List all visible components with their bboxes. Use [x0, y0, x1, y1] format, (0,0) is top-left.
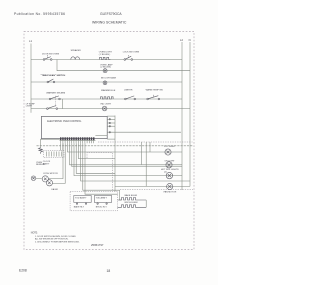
svg-text:DOOR SW OVEN: DOOR SW OVEN: [42, 53, 60, 55]
lamp oven lamp: [103, 69, 107, 73]
svg-text:WIRING SCHEMATIC: WIRING SCHEMATIC: [92, 21, 127, 25]
wire row3b: [31, 108, 190, 110]
wire branch to oven lamp: [57, 60, 190, 71]
svg-text:LOC LIGHT: LOC LIGHT: [164, 146, 176, 148]
svg-text:TOD ASM'Y: TOD ASM'Y: [96, 196, 108, 199]
wire row1: [31, 59, 182, 61]
svg-text:ASM’Y: ASM’Y: [43, 162, 50, 165]
svg-text:Publication No. 5995435786: Publication No. 5995435786: [14, 12, 65, 16]
svg-text:(2): (2): [164, 171, 167, 173]
pin stub 6: [107, 138, 115, 140]
connector P1 band: [60, 137, 95, 140]
page background: [0, 0, 218, 285]
dashed page border: [24, 32, 194, 250]
relay broil relay box: [94, 196, 111, 203]
svg-text:WARM TEMP SW: WARM TEMP SW: [146, 88, 164, 91]
svg-text:ON LIGHT: ON LIGHT: [165, 161, 176, 163]
svg-text:(2 BULBS): (2 BULBS): [101, 67, 112, 69]
connector P3 hatch pins: [47, 152, 62, 157]
svg-text:TOD ASM'Y: TOD ASM'Y: [75, 196, 87, 199]
pin stub 2: [109, 119, 110, 120]
connector dashed box left: [43, 151, 64, 158]
wire staircase from connector: [49, 143, 64, 178]
wire N bus: [189, 42, 191, 186]
switch surface switch row3a: [49, 96, 60, 100]
switch second pole row3b: [47, 106, 58, 110]
lamp surface light row2: [103, 81, 107, 85]
svg-text:FA MO: FA MO: [52, 188, 59, 191]
relay bake relay box: [74, 196, 91, 203]
svg-text:2. DISCONNECT POWER BEFORE SER: 2. DISCONNECT POWER BEFORE SERVICING.: [35, 241, 80, 243]
dashed console lines: [87, 153, 112, 192]
wire element join: [145, 200, 147, 207]
wire vertical collector right of EOC: [114, 116, 116, 192]
wire row C4: [115, 185, 190, 187]
wire dashed run below EOC: [98, 141, 193, 143]
element oven light row1: [100, 57, 111, 59]
svg-text:CONV MOTOR: CONV MOTOR: [43, 173, 58, 175]
svg-text:BAKE RLY: BAKE RLY: [74, 206, 85, 209]
link mechanical dashed: [55, 96, 57, 107]
wire band right to box edge: [95, 135, 107, 137]
switch limit row3a: [125, 96, 136, 100]
wire drop to C2 row: [141, 142, 143, 164]
wire row2: [31, 81, 182, 83]
svg-text:BROIL RLY: BROIL RLY: [96, 207, 108, 209]
svg-text:25951797: 25951797: [91, 243, 104, 247]
svg-text:N: N: [189, 38, 191, 42]
wire L2 bus: [181, 42, 183, 190]
svg-text:L1: L1: [29, 39, 32, 43]
svg-text:LIMITER: LIMITER: [124, 90, 133, 92]
element warmer element row3a: [101, 97, 114, 99]
motor cooling fan motor: [167, 183, 173, 189]
connector pins short drops: [61, 140, 94, 143]
svg-text:WARMER ELE: WARMER ELE: [101, 89, 116, 92]
svg-text:ALL SW SHOWN IN OFF POSITION.: ALL SW SHOWN IN OFF POSITION.: [35, 238, 69, 241]
switch thermostat row3a: [147, 94, 160, 99]
coil speaker row1: [71, 57, 80, 60]
wire drop short: [149, 142, 151, 152]
wire dashed lower run: [120, 189, 193, 191]
svg-text:( 2 BULBS ): ( 2 BULBS ): [99, 54, 111, 56]
wire long line to L2: [107, 131, 181, 133]
pin stub 3: [109, 122, 110, 123]
pin stub 1 right of EOC: [107, 115, 115, 117]
wire drop to C4 row: [145, 142, 147, 186]
switch door switch row1: [43, 55, 52, 61]
wire band to left component: [41, 139, 60, 147]
svg-text:"TIME/CLEAN" SWITCH: "TIME/CLEAN" SWITCH: [41, 74, 66, 77]
pin stub 4: [109, 126, 110, 127]
svg-text:18: 18: [107, 269, 111, 273]
svg-text:GLEFS79GCA: GLEFS79GCA: [100, 12, 122, 16]
wire connector underline: [60, 139, 96, 141]
svg-text:E208: E208: [19, 268, 27, 272]
svg-text:BROIL ELEM: BROIL ELEM: [125, 202, 138, 204]
svg-text:SPEAKER: SPEAKER: [71, 49, 82, 52]
svg-text:NOTE:: NOTE:: [31, 232, 38, 234]
wire pins into P3: [61, 143, 63, 150]
svg-text:L2: L2: [180, 38, 183, 42]
svg-text:LIGHT: LIGHT: [26, 106, 33, 108]
svg-text:LOCK SW OVEN: LOCK SW OVEN: [123, 51, 140, 53]
svg-text:BK LIGHT ASM: BK LIGHT ASM: [101, 76, 116, 79]
wire L1 bus: [30, 44, 32, 113]
relay board dashed box: [70, 191, 117, 210]
svg-text:WARMER SW ASM: WARMER SW ASM: [46, 92, 65, 95]
wire long run under connector: [37, 145, 193, 147]
svg-text:ELECTRONIC OVEN CONTROL: ELECTRONIC OVEN CONTROL: [47, 121, 82, 123]
wire join row3a/3b: [62, 99, 64, 109]
pin stub 5: [109, 132, 110, 133]
switch lock switch row1: [124, 55, 133, 61]
wire transformer to motor: [36, 177, 43, 180]
lamp indicator row3b: [102, 106, 107, 111]
svg-text:BAKE ELEM: BAKE ELEM: [125, 194, 137, 197]
transformer small left: [31, 176, 36, 181]
op-amp U1 electronic oven control box: [41, 116, 107, 138]
wire row3a: [31, 98, 182, 100]
svg-text:IND LIGHT: IND LIGHT: [101, 104, 112, 106]
svg-text:FAN MOTOR: FAN MOTOR: [164, 191, 177, 194]
resistor oven sensor: [39, 148, 43, 154]
